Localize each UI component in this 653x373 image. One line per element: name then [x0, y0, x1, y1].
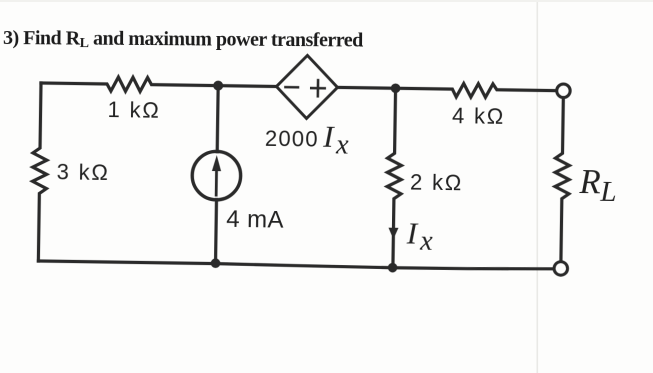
svg-text:3) Find RL and maximum power t: 3) Find RL and maximum power transferred: [3, 27, 363, 53]
svg-text:4 mA: 4 mA: [226, 206, 284, 234]
svg-text:1 kΩ: 1 kΩ: [107, 97, 160, 123]
svg-text:R: R: [578, 163, 601, 201]
svg-text:L: L: [599, 176, 617, 208]
svg-text:x: x: [335, 129, 349, 160]
svg-text:3 kΩ: 3 kΩ: [56, 159, 109, 185]
svg-text:4 kΩ: 4 kΩ: [452, 103, 505, 129]
svg-text:x: x: [419, 226, 433, 257]
svg-text:2 kΩ: 2 kΩ: [410, 169, 463, 195]
svg-text:2000: 2000: [265, 126, 319, 152]
